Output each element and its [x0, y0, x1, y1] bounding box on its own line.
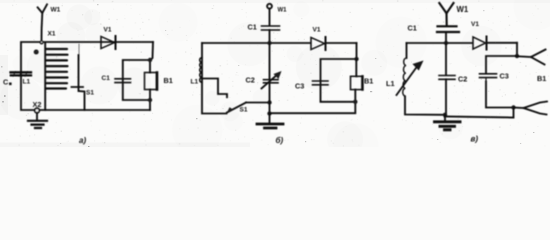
svg-text:W1: W1: [51, 7, 61, 14]
svg-text:W1: W1: [457, 5, 469, 14]
svg-text:B1: B1: [164, 76, 173, 85]
svg-text:W1: W1: [278, 8, 288, 14]
svg-text:в): в): [471, 135, 479, 144]
svg-text:X1: X1: [48, 31, 56, 38]
svg-text:S1: S1: [240, 107, 248, 114]
svg-text:V1: V1: [313, 27, 321, 34]
svg-text:C3: C3: [500, 72, 509, 81]
svg-text:C2: C2: [246, 76, 255, 85]
svg-text:B1: B1: [364, 77, 373, 86]
svg-text:б): б): [276, 136, 284, 145]
svg-text:L1: L1: [191, 79, 199, 86]
svg-text:L1: L1: [386, 79, 395, 88]
svg-text:B1: B1: [537, 74, 546, 83]
